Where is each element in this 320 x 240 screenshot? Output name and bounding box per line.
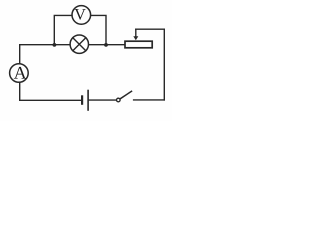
wire: left rail, ammeter top up to node J1 level [20, 45, 55, 64]
ammeter A1 [10, 64, 29, 83]
wire: bottom right, right rail to switch fixed contact [134, 99, 165, 101]
wire: right rail down [163, 29, 165, 100]
wire: battery negative plate left and up to ammeter bottom [20, 83, 81, 100]
voltmeter V1 [72, 6, 91, 25]
switch S1 (open knife switch) [117, 91, 132, 101]
wire: wiper to top-right corner [136, 28, 165, 30]
rheostat R1 wiper arrow [133, 29, 138, 40]
wire: voltmeter right terminal to corner and down to node J2 [91, 15, 106, 44]
battery B1 [82, 91, 88, 111]
lamp L1 (circle with X) [70, 35, 88, 53]
node J2 junction dot [104, 43, 108, 47]
wire: node J1 to lamp left terminal [54, 44, 69, 46]
wire: battery positive plate to switch pivot [89, 99, 117, 101]
rheostat R1 body [125, 41, 152, 48]
node J1 junction dot [53, 43, 57, 47]
wire: node J1 up and right to voltmeter left terminal [54, 15, 72, 44]
wire: lamp right terminal through J2 to rheostat left end [89, 44, 124, 46]
